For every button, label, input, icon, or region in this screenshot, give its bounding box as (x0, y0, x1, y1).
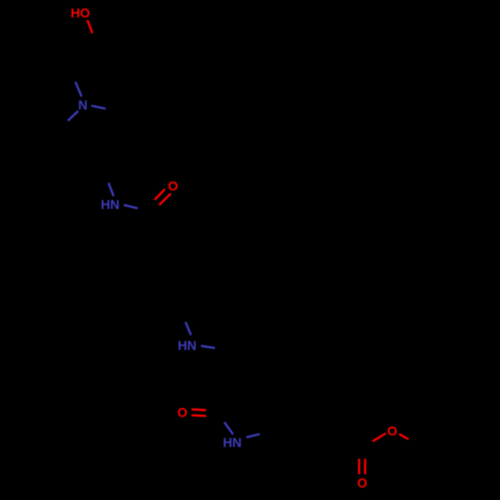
wire bond O-CH3 (red half) (399, 434, 408, 439)
double bond C=O lactam line 2 (red half) (192, 414, 207, 417)
svg-text:HO: HO (71, 6, 91, 21)
wire bond HN-C carbonyl (blue half) (124, 205, 138, 208)
double bond C=O ester line 2 (red half) (364, 459, 366, 474)
svg-text:HN: HN (223, 435, 242, 450)
wire bond aryl C-NH (blue half) (186, 322, 191, 335)
double bond C=O lactam line 1 (red half) (192, 408, 207, 411)
wire bond C(=O)-NH lactam (blue half) (224, 422, 233, 434)
svg-text:HN: HN (101, 197, 120, 212)
svg-text:O: O (168, 178, 178, 193)
svg-text:O: O (177, 405, 187, 420)
double bond C=O amide line 1 (red half) (155, 189, 165, 200)
wire bond NH-C aryl (blue half) (246, 434, 259, 437)
wire bond O-CH2 (red half) (87, 20, 92, 33)
svg-text:O: O (357, 476, 367, 491)
svg-text:N: N (78, 98, 87, 113)
svg-text:HN: HN (178, 338, 197, 353)
wire bond CH2-N upper (blue half) (75, 82, 81, 97)
wire bond C(=O)-O ester (red half) (373, 433, 386, 441)
double bond C=O ester line 1 (red half) (358, 459, 360, 474)
double bond C=O amide line 2 (red half) (159, 194, 171, 205)
wire bond C4-NH (blue half) (109, 183, 114, 196)
wire bond HN-CH2 (blue half) (201, 346, 215, 348)
svg-text:O: O (387, 424, 397, 439)
wire bond N-C right (blue half) (91, 106, 105, 109)
wire bond N-C lower-left (blue half) (68, 111, 78, 121)
